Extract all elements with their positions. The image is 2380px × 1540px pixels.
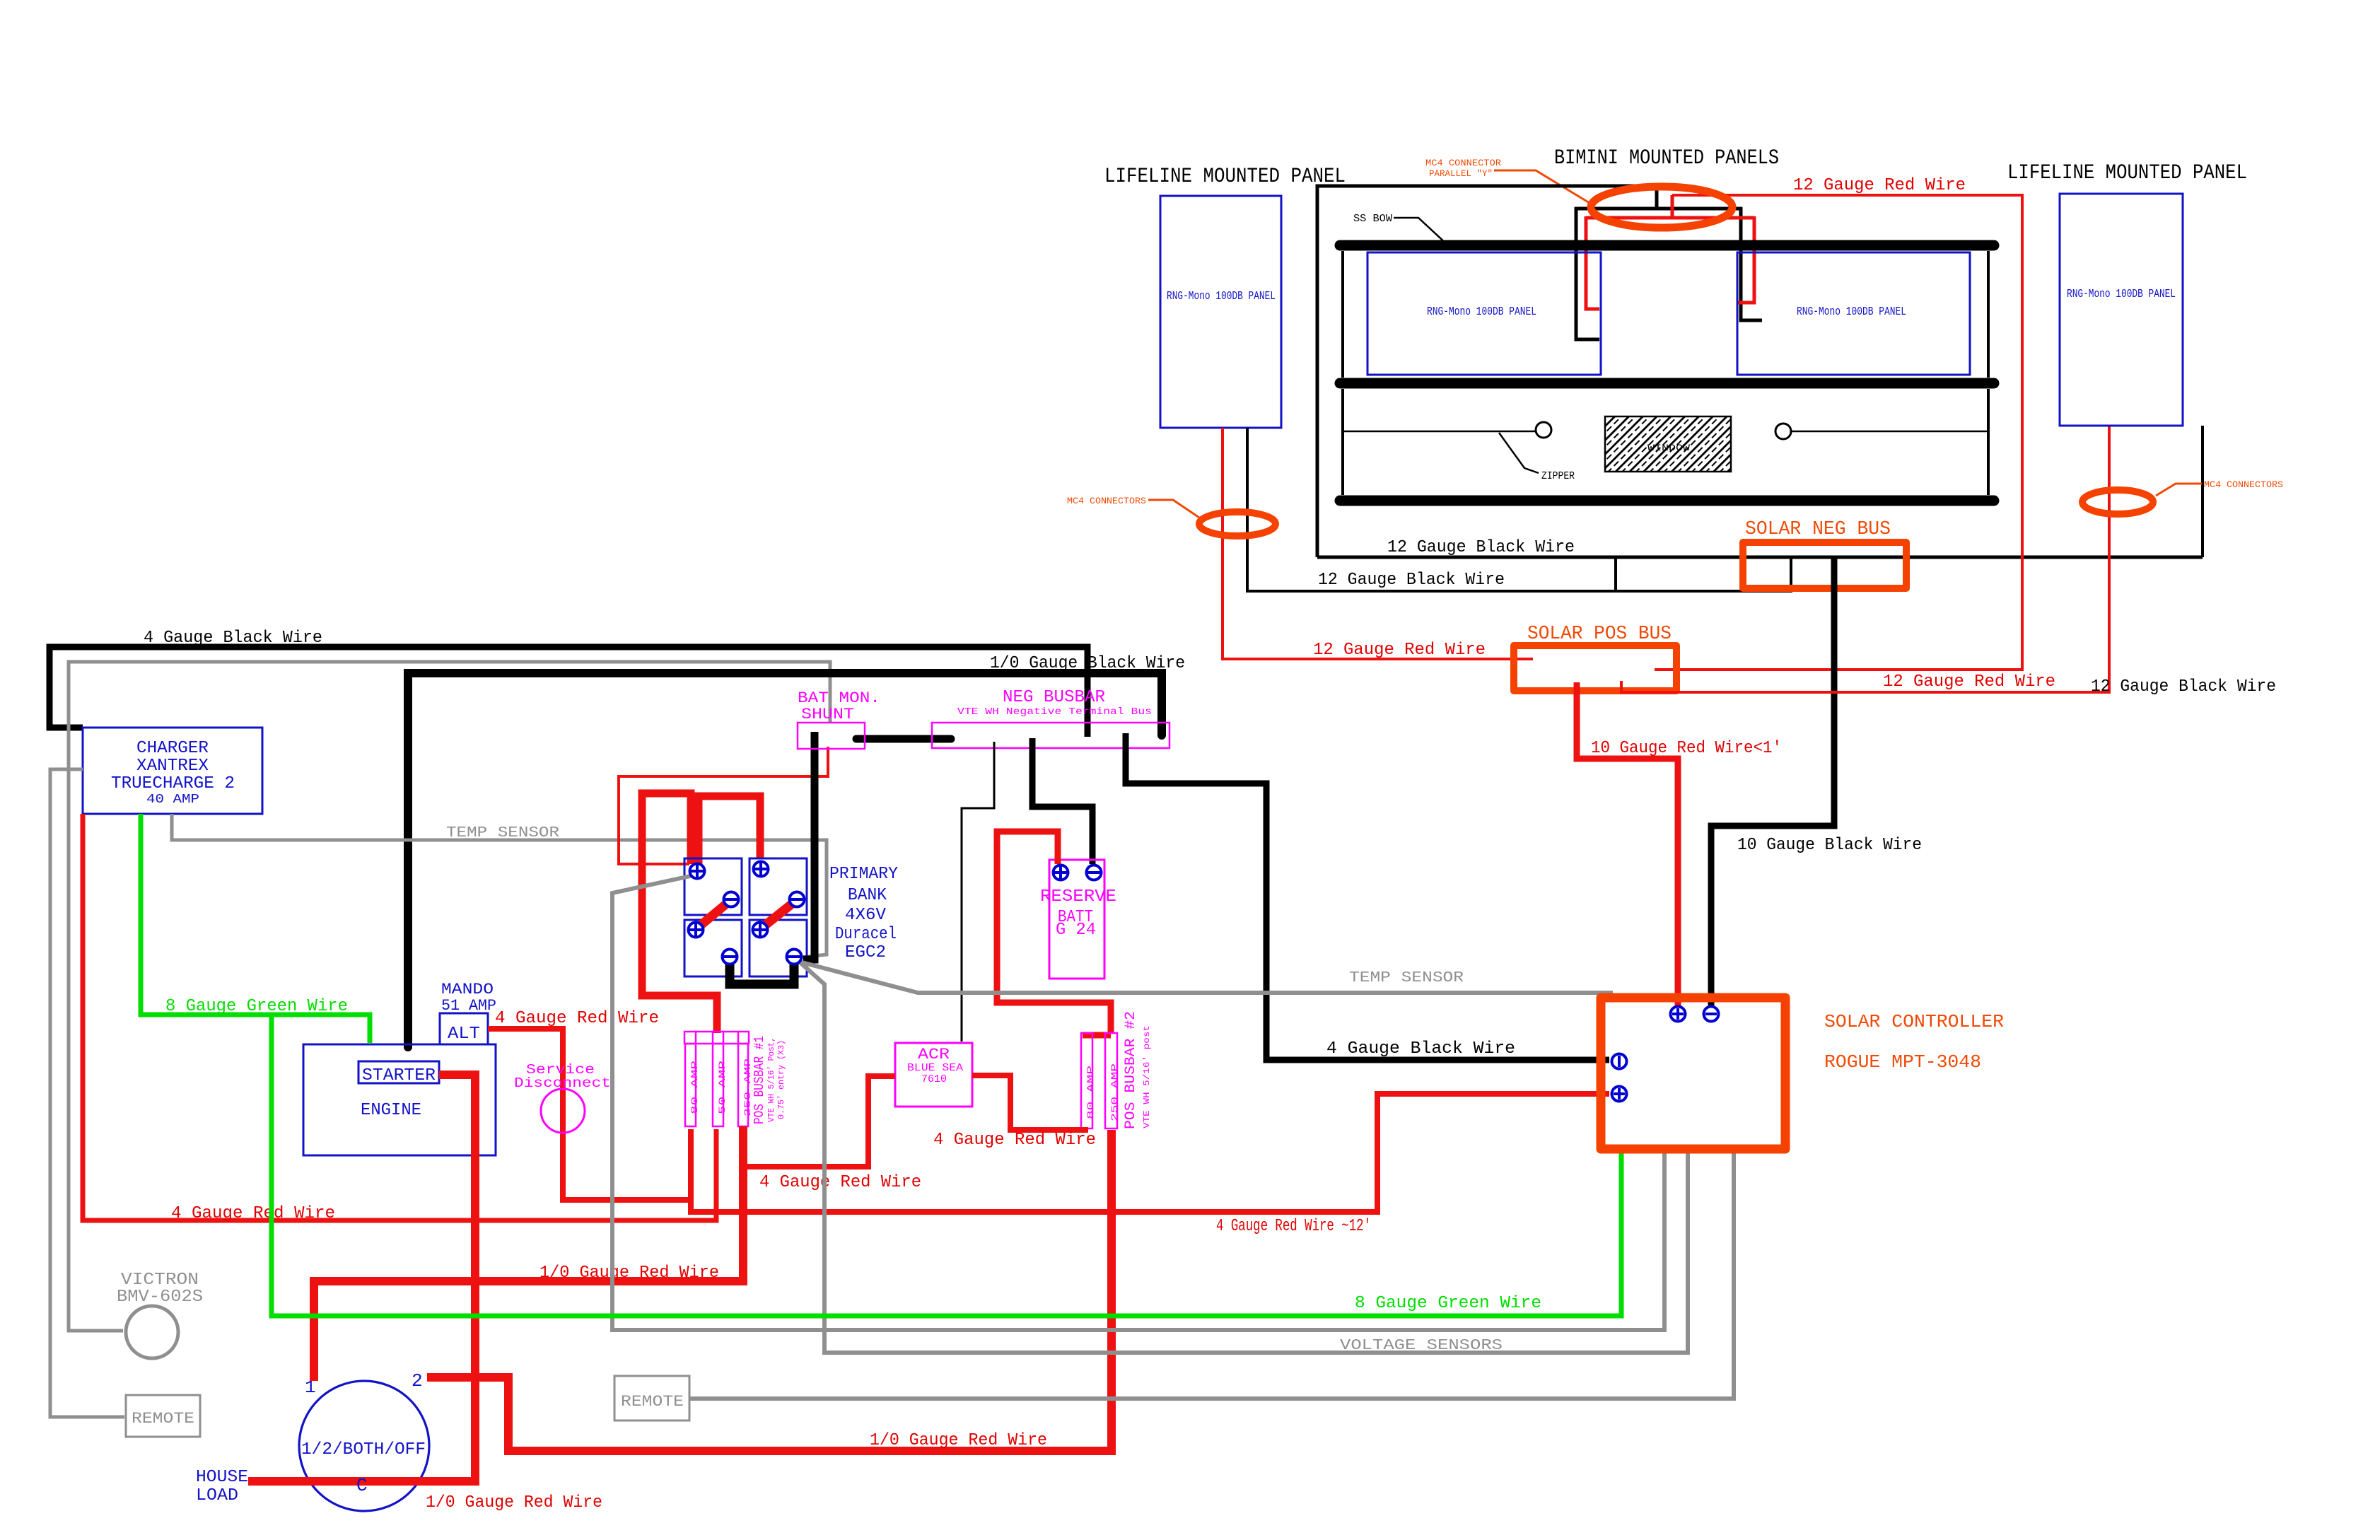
svg-text:4 Gauge Red Wire: 4 Gauge Red Wire (495, 1009, 659, 1028)
label: MC4 CONNECTORS (left) with leader (1067, 496, 1201, 519)
wire: black shunt to neg busbar (856, 735, 951, 743)
solar panel: bimini right RNG-Mono 100DB PANEL (1737, 252, 1970, 375)
wire: 1/0 red 250A fuse down to battery switch 1 (314, 1126, 743, 1381)
svg-text:MC4 CONNECTORS: MC4 CONNECTORS (1067, 496, 1146, 506)
terminal: battery TL minus (724, 892, 739, 907)
service disconnect (514, 1062, 611, 1133)
terminal: battery TR minus (790, 892, 805, 907)
bimini bar: bottom tube (1340, 496, 1994, 506)
wire: gray voltage sense battery plus to controller pin1 (612, 874, 1664, 1330)
terminal: controller plus (top) (1671, 1007, 1686, 1022)
svg-text:TEMP SENSOR: TEMP SENSOR (1349, 970, 1464, 986)
wire: 1/0 red starter to switch C house load (248, 1075, 475, 1481)
svg-text:VTE WH Negative Terminal Bus: VTE WH Negative Terminal Bus (957, 706, 1152, 718)
svg-text:BMV-602S: BMV-602S (117, 1288, 203, 1307)
label: ZIPPER with leader (1499, 433, 1575, 482)
svg-text:CHARGER: CHARGER (136, 739, 209, 758)
wire: 12 gauge black bottom rail from bimini frame to right lifeline panel (1317, 556, 2203, 559)
terminal: battery TR plus (754, 862, 769, 877)
svg-text:SHUNT: SHUNT (801, 706, 854, 723)
svg-text:7610: 7610 (921, 1073, 947, 1085)
wire: 4 gauge black neg busbar to solar controller input (1126, 733, 1609, 1060)
svg-text:SS BOW: SS BOW (1353, 213, 1392, 225)
svg-text:TRUECHARGE 2: TRUECHARGE 2 (111, 774, 235, 793)
svg-text:ALT: ALT (448, 1025, 480, 1044)
svg-text:REMOTE: REMOTE (621, 1393, 684, 1411)
MC4 connectors ring (left) (1199, 512, 1276, 536)
pos busbar 2 fuses (1081, 1033, 1120, 1128)
wire: 4 gauge red ACR to 250A fuse junction (747, 1076, 895, 1167)
wire: gray charger remote to REMOTE box (50, 769, 124, 1417)
label: POS BUSBAR #1 VTE WH 5/16' Post, 0.75' entry (X3) (rotated) (752, 1036, 786, 1124)
svg-text:RNG-Mono 100DB PANEL: RNG-Mono 100DB PANEL (1427, 305, 1536, 319)
terminal: battery BR plus (753, 923, 768, 938)
svg-text:ENGINE: ENGINE (361, 1101, 421, 1120)
svg-text:4 Gauge Red Wire: 4 Gauge Red Wire (171, 1204, 335, 1223)
svg-text:VTE WH 5/16' post: VTE WH 5/16' post (1142, 1025, 1152, 1128)
label: SOLAR CONTROLLER ROGUE MPT-3048 (1824, 1011, 2004, 1073)
svg-text:RESERVE: RESERVE (1040, 887, 1116, 906)
window (hatched) (1605, 416, 1731, 472)
wire: 4 gauge red 80A fuse to controller (~12') (691, 1094, 1609, 1212)
solar controller ROGUE MPT-3048 (orange box) (1601, 998, 1785, 1149)
svg-text:RNG-Mono 100DB PANEL: RNG-Mono 100DB PANEL (1797, 305, 1906, 319)
svg-text:1/0 Gauge Red Wire: 1/0 Gauge Red Wire (539, 1264, 719, 1283)
wire: red parallel-Y connector between bimini panels (1586, 195, 1754, 309)
svg-text:REMOTE: REMOTE (132, 1410, 194, 1428)
terminal: battery BR minus (787, 950, 802, 964)
svg-text:1/0 Gauge Black Wire: 1/0 Gauge Black Wire (990, 654, 1185, 673)
svg-text:10 Gauge Black Wire: 10 Gauge Black Wire (1737, 836, 1922, 855)
svg-text:C: C (356, 1475, 368, 1496)
MC4 connector parallel-Y ring (orange ellipse) (1591, 187, 1732, 228)
wire: red series jumper TL- to BL+ (699, 902, 728, 927)
svg-text:BLUE SEA: BLUE SEA (907, 1062, 963, 1074)
zipper line left with pull ring (1343, 422, 1551, 438)
wire: thin red shunt to battery positive (619, 747, 828, 864)
svg-text:80 AMP: 80 AMP (689, 1061, 700, 1114)
svg-text:VTE WH 5/16' Post,: VTE WH 5/16' Post, (766, 1037, 776, 1122)
terminal: controller minus (top) (1704, 1007, 1719, 1022)
MC4 connectors ring (right) (2082, 490, 2153, 514)
svg-text:SOLAR NEG BUS: SOLAR NEG BUS (1745, 519, 1891, 540)
solar panel: left lifeline RNG-Mono 100DB PANEL (1160, 196, 1281, 428)
bimini bar: middle tube (1340, 378, 1994, 389)
svg-text:G 24: G 24 (1056, 921, 1096, 940)
solar panel: bimini left RNG-Mono 100DB PANEL (1367, 252, 1601, 375)
wire: 4 gauge black charger to neg busbar (49, 647, 1087, 737)
svg-text:LIFELINE MOUNTED PANEL: LIFELINE MOUNTED PANEL (2007, 161, 2247, 185)
wire: red jumper across pos busbar 2 fuse tops (1083, 1032, 1111, 1039)
wire: thin black neg busbar to ACR ground (962, 742, 994, 1042)
svg-text:MANDO: MANDO (441, 981, 494, 998)
svg-text:HOUSE: HOUSE (196, 1468, 248, 1487)
solar pos bus (orange box) (1514, 646, 1676, 691)
label: MC4 CONNECTORS (right) with leader (2156, 479, 2283, 496)
svg-text:BANK: BANK (848, 886, 887, 905)
svg-text:ACR: ACR (918, 1046, 950, 1063)
svg-text:LOAD: LOAD (196, 1486, 238, 1505)
svg-text:12 Gauge Black Wire: 12 Gauge Black Wire (1387, 538, 1575, 557)
engine block ENGINE (303, 1044, 496, 1155)
terminal: battery TL plus (690, 864, 705, 879)
label: PRIMARY BANK 4X6V Duracel EGC2 (829, 865, 898, 962)
wire: thick red reserve battery to pos busbar 2 (997, 832, 1111, 1033)
svg-text:NEG BUSBAR: NEG BUSBAR (1003, 688, 1105, 707)
solar panel: right lifeline RNG-Mono 100DB PANEL (2060, 194, 2183, 426)
svg-text:BIMINI MOUNTED PANELS: BIMINI MOUNTED PANELS (1554, 146, 1779, 170)
wire: black series jumper BL- to BR- (730, 962, 794, 984)
svg-text:RNG-Mono 100DB PANEL: RNG-Mono 100DB PANEL (1167, 290, 1276, 303)
label: POS BUSBAR #2 VTE WH 5/16' post (rotated) (1123, 1011, 1152, 1129)
svg-text:4 Gauge Red Wire: 4 Gauge Red Wire (933, 1131, 1096, 1150)
label: MC4 CONNECTOR PARALLEL "Y" with leader (1425, 158, 1589, 203)
label: SS BOW with leader (1353, 213, 1448, 245)
svg-text:12 Gauge Black Wire: 12 Gauge Black Wire (2091, 677, 2276, 696)
wire: 4 gauge red ACR to pos busbar 2 80A fuse (972, 1075, 1088, 1130)
wire: 12 gauge red wire from bimini Y to solar pos bus (1655, 195, 2022, 670)
wire: gray temp sensor charger to battery neg post (172, 814, 827, 957)
wire: 1/0 black shunt to battery negative (803, 732, 815, 959)
svg-text:EGC2: EGC2 (845, 943, 886, 962)
terminal: battery BL minus (723, 950, 737, 964)
svg-text:1/2/BOTH/OFF: 1/2/BOTH/OFF (301, 1440, 426, 1459)
charger CHARGER XANTREX TRUECHARGE 2 40 AMP (83, 728, 262, 814)
reserve battery RESERVE BATT G 24 (1040, 860, 1116, 979)
wire: gray remote to controller pin3 (689, 1150, 1734, 1399)
shunt BAT MON. SHUNT (798, 689, 880, 749)
bimini canvas side seams (1343, 251, 1988, 495)
zipper line right with pull ring (1775, 424, 1987, 439)
svg-text:1/0 Gauge Red Wire: 1/0 Gauge Red Wire (870, 1431, 1047, 1450)
wire: 12 gauge red right lifeline panel to solar pos bus (1621, 426, 2109, 692)
svg-text:VICTRON: VICTRON (121, 1271, 199, 1290)
wire: 8 gauge green engine ground to controller (272, 1015, 1621, 1316)
remote box (left) REMOTE (126, 1395, 200, 1437)
svg-text:POS BUSBAR #1: POS BUSBAR #1 (752, 1036, 767, 1124)
wire: gray shunt sense to victron bmv (69, 662, 830, 1331)
svg-text:4 Gauge Red Wire: 4 Gauge Red Wire (759, 1173, 921, 1192)
svg-text:4 Gauge Black Wire: 4 Gauge Black Wire (1326, 1039, 1515, 1058)
svg-text:12 Gauge Red Wire: 12 Gauge Red Wire (1313, 641, 1486, 660)
svg-text:12 Gauge Black Wire: 12 Gauge Black Wire (1318, 571, 1505, 590)
svg-text:51 AMP: 51 AMP (441, 997, 496, 1015)
svg-text:BAT MON.: BAT MON. (798, 689, 880, 707)
svg-text:STARTER: STARTER (362, 1066, 436, 1085)
wire: 8 gauge green charger to engine ground (141, 814, 370, 1043)
svg-text:1/0 Gauge Red Wire: 1/0 Gauge Red Wire (426, 1493, 602, 1512)
terminal: controller battery input (left) (1612, 1054, 1627, 1069)
svg-text:VOLTAGE SENSORS: VOLTAGE SENSORS (1340, 1338, 1503, 1354)
wire: thick red battery bank staple B (699, 796, 760, 864)
svg-text:MC4 CONNECTOR: MC4 CONNECTOR (1425, 158, 1501, 168)
svg-text:4X6V: 4X6V (845, 906, 887, 925)
wire: black neg busbar to reserve battery minus (1032, 738, 1092, 864)
svg-text:4 Gauge Red Wire ~12': 4 Gauge Red Wire ~12' (1216, 1217, 1371, 1236)
svg-text:50 AMP: 50 AMP (717, 1061, 728, 1114)
terminal: battery BL plus (689, 923, 704, 938)
svg-text:0.75' entry (X3): 0.75' entry (X3) (776, 1040, 786, 1119)
wire: black parallel-Y connector between bimini panels (1575, 186, 1762, 339)
terminal: controller battery plus (left) (1612, 1087, 1627, 1102)
svg-text:10 Gauge Red Wire<1': 10 Gauge Red Wire<1' (1591, 739, 1782, 758)
svg-text:8 Gauge Green Wire: 8 Gauge Green Wire (165, 997, 348, 1016)
victron VICTRON BMV-602S (117, 1271, 203, 1358)
svg-text:40 AMP: 40 AMP (146, 793, 199, 807)
svg-text:SOLAR CONTROLLER: SOLAR CONTROLLER (1824, 1011, 2004, 1032)
svg-text:80 AMP: 80 AMP (1085, 1066, 1096, 1119)
neg busbar NEG BUSBAR VTE WH Negative Terminal Bus (932, 688, 1169, 748)
wire: gray temp sensor battery to solar controller (799, 962, 1611, 1001)
svg-text:RNG-Mono 100DB PANEL: RNG-Mono 100DB PANEL (2067, 288, 2176, 301)
svg-text:2: 2 (412, 1370, 423, 1392)
svg-text:8 Gauge Green Wire: 8 Gauge Green Wire (1355, 1294, 1541, 1313)
svg-text:PARALLEL "Y": PARALLEL "Y" (1429, 168, 1493, 179)
wire: left lifeline panel red down through MC4 to solar pos bus (1223, 428, 1533, 659)
svg-text:WINDOW: WINDOW (1647, 443, 1690, 453)
alternator MANDO 51 AMP ALT (440, 981, 496, 1044)
svg-text:12 Gauge Red Wire: 12 Gauge Red Wire (1793, 176, 1966, 195)
pos busbar 1 frame and fuses (684, 1032, 753, 1126)
svg-text:Duracel: Duracel (835, 925, 897, 944)
wire: 1/0 gauge black engine ground to neg busbar (408, 673, 1162, 1047)
svg-text:ROGUE MPT-3048: ROGUE MPT-3048 (1824, 1051, 1981, 1073)
wire: thick red battery bank staple A to pos busbar 1 feed (642, 793, 717, 1033)
starter STARTER (358, 1061, 439, 1085)
battery bank PRIMARY BANK 4X6V cells (684, 858, 807, 976)
wire: gray voltage sense battery minus to controller pin2 (798, 960, 1688, 1353)
svg-text:250 AMP: 250 AMP (1109, 1063, 1120, 1121)
svg-text:LIFELINE MOUNTED PANEL: LIFELINE MOUNTED PANEL (1104, 165, 1346, 189)
wire: left lifeline panel black to solar neg bus (1247, 428, 1791, 591)
svg-text:ZIPPER: ZIPPER (1541, 470, 1575, 482)
terminal: reserve battery minus (1087, 865, 1102, 880)
wire: 10 gauge red from solar pos bus to controller plus (1577, 682, 1678, 1012)
svg-text:PRIMARY: PRIMARY (829, 865, 898, 884)
svg-text:MC4 CONNECTORS: MC4 CONNECTORS (2204, 479, 2283, 490)
solar neg bus (orange box) (1743, 542, 1906, 588)
wire: red series jumper TR- to BR+ (763, 902, 794, 927)
remote box (right) REMOTE (614, 1376, 689, 1421)
battery switch 1/2/BOTH/OFF (299, 1370, 429, 1511)
wire: 10 gauge black from solar neg bus to controller minus (1711, 559, 1834, 1012)
svg-text:POS BUSBAR #2: POS BUSBAR #2 (1123, 1011, 1139, 1129)
label: HOUSE LOAD (196, 1468, 248, 1505)
wire: 4 gauge red ALT through service disconnect to 80A fuse (488, 1029, 691, 1200)
wire: right lifeline panel black down to bottom rail (2201, 426, 2204, 557)
wire: 4 gauge red charger to 50A fuse pos busbar 1 (83, 814, 716, 1220)
bimini bar: top SS bow tube (1340, 240, 1994, 251)
wire: 1/0 red switch 2 to pos busbar 2 250A fuse (427, 1130, 1112, 1451)
svg-text:12 Gauge Red Wire: 12 Gauge Red Wire (1883, 672, 2055, 692)
terminal: reserve battery plus (1054, 865, 1068, 880)
svg-text:SOLAR POS BUS: SOLAR POS BUS (1527, 624, 1672, 645)
bimini outer frame box (1317, 186, 1657, 557)
svg-text:TEMP SENSOR: TEMP SENSOR (446, 825, 559, 841)
svg-text:XANTREX: XANTREX (136, 757, 209, 776)
ACR BLUE SEA 7610 (895, 1043, 972, 1107)
